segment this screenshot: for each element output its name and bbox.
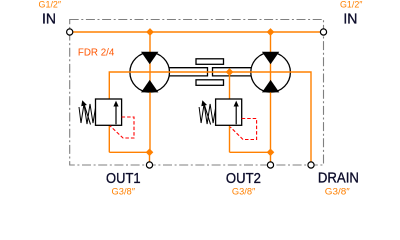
wire: valve V2 top drop <box>229 72 231 99</box>
wire: left rail (bus to OUT1 line through M1) <box>149 32 151 152</box>
relief valve V2 spring <box>199 104 216 124</box>
svg-text:G1/2″: G1/2″ <box>340 0 363 10</box>
wire: IN top bus <box>70 31 324 33</box>
coupling plate bottom <box>196 80 224 86</box>
motor M2 triangle bottom <box>262 80 279 93</box>
shaft left segment <box>170 68 208 76</box>
relief valve V1 flow arrow <box>115 104 117 124</box>
relief valve V2 body <box>216 99 242 125</box>
port IN right <box>320 29 326 35</box>
junction diamond at OUT2 <box>267 148 275 156</box>
wire: OUT2 horizontal <box>230 152 271 165</box>
wire: drain line y=72 <box>109 72 311 165</box>
wire: OUT1 horizontal <box>109 152 149 165</box>
relief valve V1 adjustment arrow <box>84 104 91 125</box>
svg-text:G3/8″: G3/8″ <box>325 186 351 196</box>
svg-text:G3/8″: G3/8″ <box>232 186 256 196</box>
relief valve V2 adjustment arrow <box>204 104 211 125</box>
svg-text:IN: IN <box>343 11 357 28</box>
coupling plate top <box>196 59 224 65</box>
svg-text:OUT1: OUT1 <box>106 170 141 187</box>
port OUT1 <box>146 162 152 168</box>
motor M2 circle <box>251 53 291 93</box>
svg-text:DRAIN: DRAIN <box>318 170 359 187</box>
wire: right rail (bus to OUT2 line through M2) <box>270 32 272 152</box>
svg-text:G1/2″: G1/2″ <box>39 0 62 10</box>
svg-text:FDR 2/4: FDR 2/4 <box>78 48 115 59</box>
junction diamond at bus/M1 <box>146 28 154 36</box>
enclosure boundary (dash-dot) <box>70 20 324 166</box>
junction diamond at drain/V2 <box>226 68 234 76</box>
wire: valve V2 vertical <box>229 99 231 152</box>
relief valve V1 spring <box>79 104 96 124</box>
svg-text:OUT2: OUT2 <box>226 170 261 187</box>
motor M2 triangle top <box>262 52 279 65</box>
motor M1 triangle top <box>141 52 158 65</box>
junction diamond at bus/M2 <box>267 28 275 36</box>
wire: valve V1 vertical <box>108 99 110 152</box>
svg-text:G3/8″: G3/8″ <box>112 186 136 196</box>
motor M1 circle <box>130 53 170 93</box>
motor M1 triangle bottom <box>141 80 158 93</box>
shaft right segment <box>213 68 252 76</box>
port IN left <box>67 29 73 35</box>
port OUT2 <box>267 162 273 168</box>
relief valve V2 pilot line (red dashed) <box>230 119 256 140</box>
relief valve V1 body <box>96 99 122 125</box>
relief valve V2 flow arrow <box>235 104 237 124</box>
svg-text:IN: IN <box>42 11 56 28</box>
junction diamond at OUT1 <box>146 148 154 156</box>
relief valve V1 pilot line (red dashed) <box>110 117 134 138</box>
port DRAIN <box>308 162 314 168</box>
